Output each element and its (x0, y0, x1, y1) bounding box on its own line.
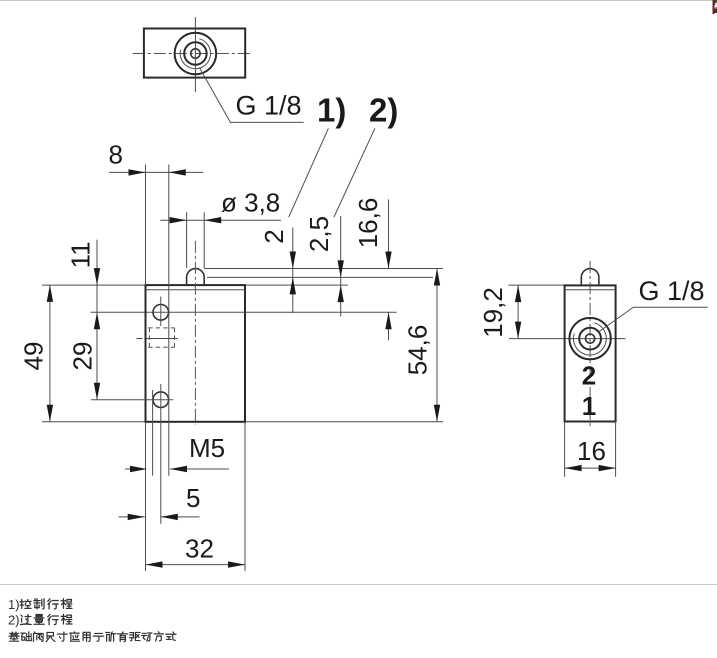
footnote char 制 (34, 599, 44, 609)
svg-text:5: 5 (186, 483, 200, 513)
footnote char 量 (34, 614, 44, 624)
dimension 49 line (49, 285, 51, 422)
footnote char 尺 (46, 632, 55, 641)
top view port inner circle (191, 49, 200, 58)
svg-text:16: 16 (577, 436, 606, 466)
right extension line below body (244, 422, 246, 571)
dimension 49 arrows (47, 285, 53, 422)
hidden port axis line (136, 338, 178, 340)
M5 thread line right / 8-dim extension (168, 165, 170, 476)
svg-text:2): 2) (8, 613, 20, 628)
leader line from 2) (334, 128, 375, 217)
side view thread arc (573, 323, 606, 355)
svg-text:M5: M5 (189, 433, 225, 463)
left extension line above body (145, 165, 147, 286)
footnote char 程 (61, 614, 72, 624)
dimension 8 line (109, 171, 203, 173)
leader line from 1) (289, 128, 329, 217)
footnote char 应 (70, 632, 80, 641)
page top border (0, 0, 717, 2)
svg-text:2: 2 (582, 361, 596, 391)
svg-text:19,2: 19,2 (478, 287, 508, 338)
upper mounting hole (153, 305, 169, 321)
dimension 19,2 line (517, 285, 519, 339)
line B control stroke level (207, 276, 433, 278)
dimension M5 arrows (130, 466, 187, 472)
svg-text:2,5: 2,5 (304, 216, 334, 252)
footnote char 行 (48, 614, 59, 624)
dimension M5 line (125, 468, 229, 470)
hidden port rectangle top dash (148, 327, 174, 329)
hidden port rectangle right dash (174, 328, 176, 347)
side view plunger pin (581, 269, 599, 286)
footnote char 行 (48, 599, 59, 609)
dimension 2,5 arrows (338, 260, 344, 302)
dimension 54,6 arrows (434, 269, 440, 422)
dimension 16 arrows (565, 465, 616, 471)
dimension 16,6 line lower part (388, 312, 390, 340)
dimension 5 arrows (128, 514, 178, 520)
dimension 11/29 line (96, 240, 98, 400)
footnote char 有 (117, 632, 127, 642)
hidden port rectangle left dash (148, 328, 150, 347)
hidden port rectangle bottom dash (148, 346, 174, 348)
front view body rectangle (146, 285, 246, 422)
pin extension lines for dia 3.8 (187, 212, 205, 268)
top view body rectangle (144, 29, 245, 78)
svg-text:G 1/8: G 1/8 (639, 276, 705, 306)
footnote char 所 (106, 632, 116, 641)
dimension 8 arrows (129, 169, 186, 175)
front view vertical centerline (194, 241, 196, 425)
dimension dia 3,8 arrows (170, 217, 222, 223)
side view port inner circle (586, 334, 595, 343)
svg-text:16,6: 16,6 (353, 198, 383, 249)
dimension 29 arrows (94, 312, 100, 399)
svg-text:8: 8 (109, 140, 123, 170)
footnote separator line (0, 584, 717, 586)
top view thread arc (180, 39, 210, 69)
svg-text:11: 11 (66, 241, 96, 268)
dimension 16 line (565, 467, 616, 469)
line A pin top level (204, 268, 443, 270)
svg-text:1): 1) (8, 597, 20, 612)
side view vertical centerline (589, 261, 591, 427)
footnote char 式 (166, 632, 176, 640)
line D hole axis level (91, 311, 397, 313)
footnote char 驱 (130, 632, 140, 640)
footnote char 于 (93, 633, 103, 641)
side view body rectangle (565, 285, 616, 421)
svg-text:2): 2) (369, 92, 398, 129)
svg-text:1): 1) (317, 92, 346, 129)
upper hole vertical tick (160, 297, 162, 327)
side view port outer circle (569, 318, 610, 359)
lower hole axis line (91, 399, 173, 401)
footnote char 程 (61, 599, 72, 609)
dimension 19,2 arrows (515, 285, 521, 339)
dimension 16,6 line upper part (388, 199, 390, 268)
svg-text:ø 3,8: ø 3,8 (221, 188, 280, 218)
front view inner line below top (146, 289, 246, 291)
side view port middle circle (579, 328, 601, 350)
footnote char 寸 (57, 632, 67, 641)
left extension line below body (145, 422, 147, 571)
front view plunger pin (187, 269, 205, 285)
dimension 5 line (119, 516, 200, 518)
footnote char 基 (9, 632, 19, 641)
side view top extension line (508, 284, 564, 286)
dimension dia 3,8 line (160, 219, 281, 221)
dimension 16,6 arrows (385, 252, 391, 330)
svg-text:2: 2 (259, 229, 289, 243)
top view port outer circle (175, 33, 217, 75)
dimension 11 top arrow (94, 268, 100, 285)
footnote char 控 (20, 599, 31, 608)
dimension 2 line (292, 228, 294, 314)
side view inner line below top (565, 289, 616, 291)
dimension 2,5 line (340, 216, 342, 316)
dimension 54,6 line (436, 269, 438, 422)
svg-text:G 1/8: G 1/8 (236, 91, 302, 121)
front view bottom line extended (42, 421, 443, 423)
dimension 2 arrows (290, 252, 296, 295)
M5 thread line left (152, 390, 154, 476)
footnote char 础 (21, 632, 31, 641)
leader line to G 1/8 (top view) (199, 68, 303, 123)
front view extension line at body top level (42, 284, 348, 286)
svg-text:32: 32 (185, 534, 214, 564)
side view hole axis line (509, 338, 626, 340)
lower hole vertical line down to 5-dim (160, 384, 162, 524)
footnote char 过 (20, 615, 31, 625)
browser artifact top right (713, 0, 717, 14)
side view extension lines below (565, 422, 616, 477)
footnote char 用 (83, 632, 90, 641)
top view port middle circle (184, 42, 206, 64)
svg-text:1: 1 (582, 391, 596, 421)
svg-text:49: 49 (19, 342, 49, 371)
dimension 32 line (146, 564, 246, 566)
footnote char 阀 (33, 632, 43, 642)
dimension 32 arrows (146, 561, 246, 567)
lower mounting hole (153, 392, 169, 408)
footnote char 方 (154, 632, 163, 641)
leader line to G 1/8 (side view) (600, 307, 708, 331)
footnote char 动 (142, 633, 152, 641)
svg-text:29: 29 (68, 342, 98, 371)
svg-text:54,6: 54,6 (403, 325, 433, 376)
top view horizontal centerline (133, 53, 253, 55)
top view vertical centerline (194, 17, 196, 92)
